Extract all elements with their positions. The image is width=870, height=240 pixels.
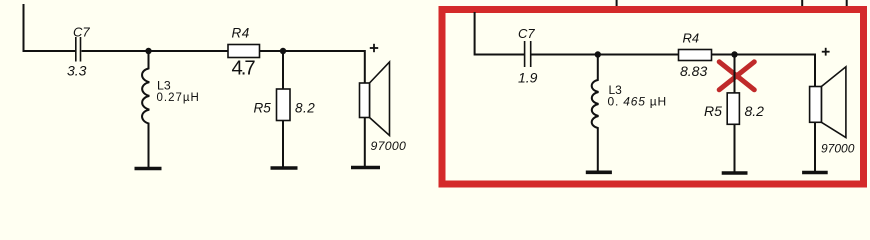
svg-text:0.27µH: 0.27µH xyxy=(157,92,200,104)
svg-text:R4: R4 xyxy=(683,30,700,45)
svg-text:4.7: 4.7 xyxy=(232,57,256,79)
svg-text:8.2: 8.2 xyxy=(295,100,315,115)
svg-text:L3: L3 xyxy=(157,79,171,93)
svg-text:97000: 97000 xyxy=(371,139,407,153)
svg-text:C7: C7 xyxy=(73,24,90,39)
svg-text:0. 465 µH: 0. 465 µH xyxy=(608,94,668,108)
svg-text:8.83: 8.83 xyxy=(680,63,707,79)
svg-text:C7: C7 xyxy=(518,26,535,41)
svg-text:R4: R4 xyxy=(232,26,250,41)
svg-text:97000: 97000 xyxy=(821,142,855,156)
svg-text:R5: R5 xyxy=(254,100,272,115)
svg-text:R5: R5 xyxy=(704,103,722,119)
svg-text:3.3: 3.3 xyxy=(67,63,87,79)
svg-text:1.9: 1.9 xyxy=(518,70,538,86)
svg-text:8.2: 8.2 xyxy=(745,103,765,119)
